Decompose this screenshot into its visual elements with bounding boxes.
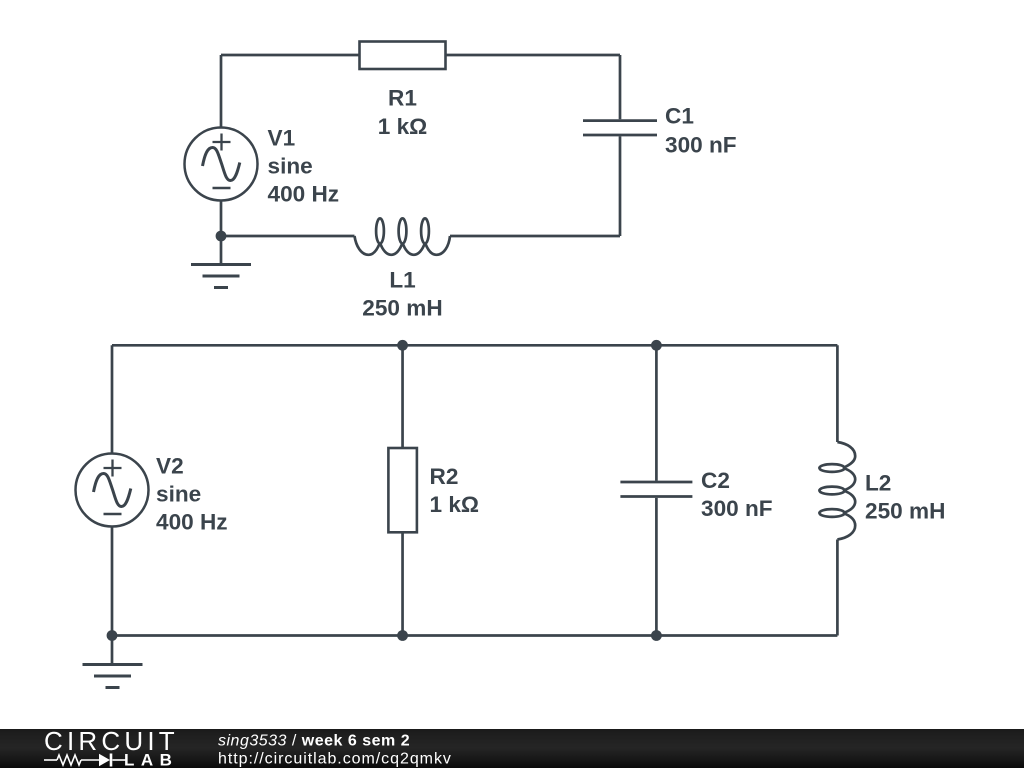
wire right rail below C1 <box>619 136 622 236</box>
resistor R2 body <box>388 448 417 532</box>
inductor L2 coil arcs <box>837 442 855 540</box>
svg-text:1 kΩ: 1 kΩ <box>430 492 480 517</box>
capacitor C1 plates <box>583 121 657 135</box>
svg-text:L1: L1 <box>389 268 415 293</box>
junction node c2 top C2 <box>651 340 662 351</box>
svg-text:250 mH: 250 mH <box>865 499 945 524</box>
wire right rail above C1 <box>619 55 622 119</box>
V2 plus sign <box>104 460 122 477</box>
wire R2 top <box>401 345 404 448</box>
svg-text:R1: R1 <box>388 86 417 111</box>
wire top rail of circuit 2 <box>112 344 837 347</box>
svg-text:C2: C2 <box>701 468 730 493</box>
wire R2 bottom <box>401 532 404 635</box>
voltage source V2 circle <box>76 454 149 527</box>
svg-text:LAB: LAB <box>124 751 178 768</box>
svg-text:300 nF: 300 nF <box>701 496 773 521</box>
junction node c2 top R2 <box>397 340 408 351</box>
svg-text:C1: C1 <box>665 104 694 129</box>
logo resistor-diode art <box>44 754 126 767</box>
junction node c2 bottom V2 <box>107 630 118 641</box>
inductor L1 coil arcs <box>355 236 451 255</box>
wire bottom rail right segment (L1 to right rail) <box>450 235 620 238</box>
svg-text:sine: sine <box>156 482 201 507</box>
V2 minus sign <box>104 513 122 516</box>
wire top-left vertical (V1 top to top rail) <box>220 55 223 128</box>
svg-text:V1: V1 <box>268 126 296 151</box>
junction node circuit1 <box>216 231 227 242</box>
wire C2 bottom <box>655 498 658 636</box>
wire top rail of circuit 1 <box>221 54 620 57</box>
wire V2 bottom <box>111 526 114 635</box>
svg-text:R2: R2 <box>430 464 459 489</box>
wire node to ground G1 <box>220 236 223 265</box>
inductor L1 loops <box>376 218 429 243</box>
voltage source V1 circle <box>185 128 258 201</box>
wire L2 top <box>836 345 839 442</box>
wire L2 bottom <box>836 540 839 636</box>
V1 minus sign <box>213 187 231 190</box>
svg-text:sing3533 / week 6 sem 2: sing3533 / week 6 sem 2 <box>218 733 410 750</box>
capacitor C2 plates <box>620 482 692 497</box>
svg-text:1 kΩ: 1 kΩ <box>378 114 428 139</box>
ground G2 <box>83 665 143 688</box>
svg-text:300 nF: 300 nF <box>665 132 737 157</box>
junction node c2 bottom R2 <box>397 630 408 641</box>
svg-text:V2: V2 <box>156 454 184 479</box>
V2 sine wave <box>94 474 131 507</box>
V1 sine wave <box>203 148 240 181</box>
wire C2 top <box>655 345 658 480</box>
svg-text:sine: sine <box>268 154 313 179</box>
svg-text:http://circuitlab.com/cq2qmkv: http://circuitlab.com/cq2qmkv <box>218 750 452 767</box>
V1 plus sign <box>213 134 231 151</box>
inductor L2 loops <box>819 464 844 517</box>
wire bottom rail of circuit 2 <box>112 634 837 637</box>
svg-text:400 Hz: 400 Hz <box>268 182 340 207</box>
svg-text:400 Hz: 400 Hz <box>156 510 228 535</box>
wire V1 bottom to node <box>220 200 223 236</box>
svg-text:L2: L2 <box>865 471 891 496</box>
logo diode triangle <box>99 754 110 766</box>
junction node c2 bottom C2 <box>651 630 662 641</box>
wire node to ground G2 <box>111 636 114 665</box>
resistor R1 body <box>360 42 446 70</box>
footer bar <box>0 729 1024 768</box>
ground G1 <box>191 265 251 288</box>
wire V2 top <box>111 345 114 453</box>
wire bottom rail left segment (node to L1) <box>221 235 355 238</box>
svg-text:250 mH: 250 mH <box>362 296 442 321</box>
